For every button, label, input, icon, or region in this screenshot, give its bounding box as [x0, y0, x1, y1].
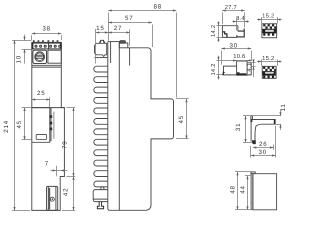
- svg-text:14.2: 14.2: [210, 25, 217, 37]
- B left foot dark: [223, 71, 226, 75]
- F strip: [251, 174, 253, 210]
- dim 45 front: [16, 108, 32, 140]
- svg-text:79: 79: [62, 141, 69, 149]
- foot pin: [97, 202, 103, 209]
- A right hook bottom: [237, 31, 244, 37]
- B contact blob dark: [237, 72, 240, 75]
- D body: [262, 66, 276, 78]
- svg-text:31: 31: [235, 123, 242, 131]
- section line 2: [32, 66, 62, 68]
- dim 7: [45, 161, 67, 177]
- column top edge: [108, 41, 120, 43]
- dim 38: [32, 26, 62, 40]
- C dark band: [262, 29, 276, 34]
- svg-text:8.4: 8.4: [236, 15, 245, 22]
- foot bump: [101, 187, 104, 190]
- foot inner left line: [47, 186, 49, 210]
- terminal block X1: [32, 43, 61, 49]
- module window inner edge: [50, 108, 52, 142]
- foot screw: [50, 197, 54, 201]
- dim 88: [108, 4, 176, 98]
- svg-text:30: 30: [259, 149, 267, 156]
- latch notches: [49, 115, 52, 130]
- svg-text:57: 57: [125, 15, 133, 22]
- front body outline: [32, 42, 65, 210]
- A right hook top: [238, 29, 244, 32]
- F tab: [251, 172, 255, 174]
- clamp screw head circles: [35, 52, 45, 62]
- D pattern checker row 1: [263, 67, 274, 69]
- svg-text:26: 26: [259, 141, 267, 148]
- DIN foot: [47, 186, 58, 210]
- D slot light: [265, 72, 274, 74]
- svg-text:88: 88: [153, 4, 161, 11]
- dim 42: [62, 177, 75, 211]
- B contact bar dark: [237, 73, 247, 75]
- fin spine: [108, 42, 110, 211]
- inner rib: [129, 48, 131, 66]
- dim 57: [108, 15, 152, 47]
- svg-text:45: 45: [178, 115, 185, 123]
- svg-text:7: 7: [45, 161, 49, 168]
- A outline: [222, 26, 238, 38]
- svg-text:214: 214: [3, 120, 10, 133]
- heatsink fins: [94, 66, 108, 187]
- dim 79: [62, 108, 76, 177]
- side foot: [93, 190, 108, 202]
- C body: [262, 24, 277, 38]
- F body: [253, 174, 277, 210]
- E foot dark: [252, 140, 256, 144]
- svg-text:15: 15: [96, 25, 104, 32]
- svg-text:27: 27: [114, 25, 122, 32]
- B raised box: [237, 61, 248, 75]
- side panel window: [48, 50, 61, 63]
- C pattern checker row 3: [263, 33, 274, 35]
- svg-text:10.6: 10.6: [233, 53, 245, 60]
- dim 15: [96, 25, 109, 63]
- shade strip: [53, 112, 55, 139]
- section line 1: [32, 64, 62, 66]
- LED slot: [36, 135, 46, 140]
- top clamp terminal: [95, 43, 107, 56]
- svg-text:10: 10: [15, 55, 22, 63]
- top screw cap: [120, 41, 126, 44]
- svg-text:27.7: 27.7: [225, 4, 237, 11]
- body outline right: [110, 48, 174, 211]
- D dark band: [263, 71, 276, 76]
- body front face: [118, 42, 120, 211]
- flange top edge: [32, 107, 65, 109]
- svg-text:15.2: 15.2: [262, 55, 274, 62]
- svg-text:4.1: 4.1: [247, 63, 253, 72]
- E leg and gusset curve: [251, 120, 262, 142]
- E bar right end thick: [274, 120, 276, 124]
- C slot light: [265, 30, 274, 32]
- svg-text:38: 38: [42, 26, 50, 33]
- foot inner right line: [55, 186, 57, 210]
- dim 10: [12, 35, 31, 64]
- svg-text:44: 44: [240, 185, 247, 193]
- E bar: [251, 120, 275, 125]
- clamp lower line: [95, 57, 108, 59]
- dim 25: [32, 90, 50, 107]
- foot dark shade: [49, 188, 51, 209]
- D pattern checker row 3: [263, 76, 274, 78]
- svg-text:11: 11: [280, 103, 287, 111]
- spine channel line: [110, 42, 112, 63]
- terminal screws (6): [35, 45, 62, 48]
- C pattern checker row 1: [263, 24, 274, 26]
- clamp screw: [100, 40, 105, 43]
- E bar left dark corner: [250, 119, 252, 122]
- B outline: [223, 63, 251, 75]
- dim 27: [108, 25, 130, 46]
- E tab: [251, 116, 253, 120]
- svg-text:15.2: 15.2: [262, 12, 274, 19]
- dim 45 side: [176, 99, 189, 139]
- clamp screw slot: [36, 55, 44, 58]
- svg-text:45: 45: [16, 120, 23, 128]
- bottom step edge: [60, 176, 64, 178]
- svg-text:25: 25: [37, 90, 45, 97]
- clamp screw box: [33, 50, 47, 63]
- A step profile: [222, 32, 227, 37]
- module window: [32, 108, 50, 143]
- top terminal box: [119, 43, 128, 48]
- svg-text:42: 42: [63, 188, 70, 196]
- D pattern checker row 2: [265, 69, 276, 71]
- svg-text:48: 48: [230, 185, 237, 193]
- dim 214: [3, 40, 30, 210]
- C pattern checker row 2: [265, 26, 276, 28]
- A right top edge: [237, 26, 239, 32]
- svg-text:14.2: 14.2: [210, 63, 217, 75]
- terminal screw slot ticks: [33, 40, 58, 42]
